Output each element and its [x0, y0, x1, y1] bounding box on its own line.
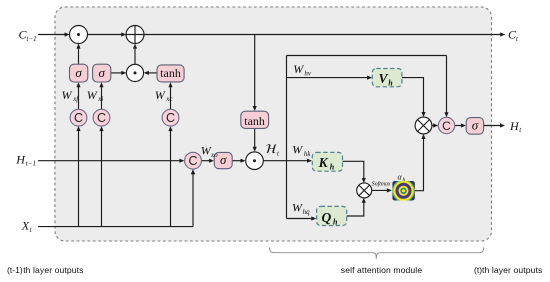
label W_hq [292, 201, 310, 216]
svg-text:tanh: tanh [244, 114, 265, 128]
sigma box 4 (attention output) [466, 117, 483, 134]
label W_hv [293, 62, 312, 78]
sigma box 2 (input gate) [93, 64, 111, 82]
caption (t-1)th layer outputs [7, 265, 84, 275]
svg-text:σ: σ [220, 152, 227, 167]
Q_h box [317, 206, 347, 226]
svg-text:h: h [330, 162, 335, 171]
svg-text:xi: xi [97, 95, 103, 103]
svg-text:W: W [87, 88, 98, 102]
svg-text:Softmax: Softmax [372, 181, 391, 188]
op circle: plus (add on C line) [126, 26, 144, 44]
wire: C4 to sigma3 [201, 160, 210, 162]
svg-text:σ: σ [75, 65, 82, 80]
svg-text:W: W [62, 88, 73, 102]
svg-text:t−1: t−1 [27, 35, 37, 43]
wire: tanh2 down to dot3 [254, 128, 256, 147]
svg-text:xc: xc [165, 95, 173, 103]
wire: top bypass horizontal y=55 [287, 55, 447, 57]
label H_{t-1} [15, 152, 36, 167]
wire: W_hv line to V_h [287, 77, 369, 79]
svg-text:σ: σ [472, 117, 479, 132]
svg-text:W: W [292, 201, 303, 215]
svg-text:V: V [379, 71, 389, 86]
concat circle C5 (H_t with attention) [438, 117, 454, 133]
svg-text:t−1: t−1 [26, 160, 36, 168]
svg-text:(t-1): (t-1) [7, 265, 23, 275]
wire: dot2 up to plus [134, 48, 136, 65]
label alpha_h [398, 173, 406, 184]
wire: sigma2 right to dot2 [111, 72, 122, 74]
svg-text:K: K [318, 155, 329, 170]
svg-text:X: X [21, 219, 30, 233]
caption (t)th layer outputs [474, 265, 542, 275]
label W_xo [201, 143, 218, 159]
svg-text:(t): (t) [474, 265, 482, 275]
cell body (dashed rounded container) [55, 7, 492, 241]
wire: attention trunk vertical [286, 56, 288, 219]
svg-text:th layer outputs: th layer outputs [23, 265, 83, 275]
svg-text:W: W [293, 62, 304, 76]
svg-text:th layer outputs: th layer outputs [482, 265, 542, 275]
svg-text:tanh: tanh [160, 66, 181, 80]
otimes2 (K_h x Q_h) [357, 183, 372, 198]
svg-text:Q: Q [322, 210, 332, 225]
tanh box 1 (candidate) [157, 65, 184, 82]
svg-text:C: C [97, 111, 106, 125]
svg-text:xf: xf [72, 95, 79, 103]
svg-text:C: C [166, 111, 175, 125]
wire: X line up into C1 [78, 130, 80, 226]
wire: tanh1 left to dot2 [148, 72, 157, 74]
svg-text:H: H [15, 152, 26, 166]
alpha_h attention map icon [392, 180, 415, 202]
K_h box [312, 152, 342, 171]
sigma box 3 (output gate) [214, 152, 232, 169]
sigma box 1 (forget gate) [70, 64, 88, 82]
label W_xi [87, 88, 104, 103]
wire: V_h right then down to otimes1 [402, 78, 424, 114]
svg-text:self attention module: self attention module [341, 265, 423, 275]
label W_xf [62, 88, 80, 103]
svg-text:hq: hq [303, 208, 311, 216]
label C_{t-1} [19, 27, 37, 43]
op circle: dot2 (i*ctilde) [126, 64, 143, 81]
op circle: dot1 (elementwise mult on C line) [70, 26, 88, 44]
svg-text:hv: hv [304, 70, 312, 78]
wire: otimes2 to alpha icon [372, 189, 389, 191]
label X_t [21, 219, 33, 234]
svg-text:t: t [519, 126, 522, 134]
concat circle C4 [185, 152, 202, 169]
svg-text:W: W [155, 88, 166, 102]
label W_hk [292, 142, 311, 158]
wire: otimes1 to C5 [432, 125, 434, 127]
wire: H_{t-1} into C4 [38, 160, 180, 162]
label H_t output [509, 119, 522, 134]
wire: K_h right then down to otimes2 [343, 161, 364, 179]
wire: C5 to sigma4 [455, 125, 463, 127]
svg-text:xo: xo [210, 151, 218, 159]
tanh box 2 (cell output) [241, 111, 269, 128]
wire: X line up into C2 [101, 130, 103, 226]
concat circle C1 [70, 109, 87, 126]
wire: dot3 right to K_h (H_t line) [263, 160, 308, 162]
wire: alpha icon right then up to otimes1 [415, 138, 424, 191]
wire: C2 up to sigma2 [101, 86, 103, 109]
svg-text:C: C [74, 111, 83, 125]
svg-text:h: h [388, 78, 393, 87]
label C_t [508, 27, 519, 43]
wire: C1 up to sigma1 [78, 86, 80, 109]
svg-text:h: h [403, 177, 406, 183]
label script H_t [266, 144, 280, 157]
svg-text:σ: σ [98, 65, 105, 80]
otimes1 (V_h x alpha_h) [415, 117, 432, 134]
wire: X_t line [38, 226, 193, 228]
wire: C_{t-1} into dot1 [38, 34, 66, 36]
svg-text:t: t [30, 226, 33, 234]
V_h box [372, 69, 402, 88]
svg-text:h: h [333, 217, 338, 226]
arrowheads [65, 32, 506, 220]
wire: sigma4 to H_t output [484, 125, 501, 127]
wire: X line up into C3 [170, 130, 172, 226]
svg-text:C: C [188, 154, 197, 168]
wire: W_hq line to Q_h [287, 218, 313, 220]
svg-text:hk: hk [304, 150, 312, 158]
concat circle C2 [93, 109, 110, 126]
wire: X line up into C4 [192, 173, 194, 226]
underbrace (self attention module) [269, 247, 483, 259]
op circle: dot3 (o*tanh(C)) [246, 152, 264, 170]
svg-text:W: W [292, 142, 303, 156]
wire: branch C line down to tanh2 [254, 35, 256, 108]
label W_xc [155, 88, 174, 103]
wire: sigma3 to dot3 [232, 160, 241, 162]
wire: bypass down into C5 [446, 56, 448, 114]
wire: dot1 to plus [87, 34, 122, 36]
wire: Q_h right then up to otimes2 [347, 202, 364, 217]
wire: plus to C_t output [144, 34, 501, 36]
svg-text:C: C [442, 119, 451, 133]
concat circle C3 [162, 109, 179, 126]
svg-text:t: t [516, 35, 519, 43]
wire: C3 up to tanh1 [170, 86, 172, 109]
wire: sigma1 up to dot1 [78, 48, 80, 64]
